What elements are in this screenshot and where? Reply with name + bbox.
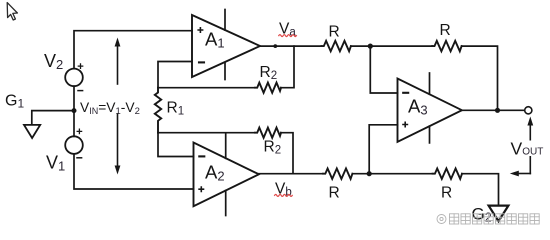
wire: A2 output to Vb / R bottom (259, 173, 323, 175)
wire: V2 top to A1 plus input (74, 31, 192, 69)
resistor R (bottom right, to ground) (433, 169, 462, 179)
annotation arrow up (VIN) (117, 46, 119, 85)
svg-text:V2: V2 (44, 51, 63, 72)
voltage source V2 (65, 69, 83, 87)
red squiggle under Vb (275, 194, 293, 196)
output terminal circle (525, 107, 532, 114)
svg-text:A3: A3 (408, 95, 428, 117)
V2 plus sign (78, 64, 82, 68)
A3 minus sign (403, 92, 408, 94)
svg-text:G1: G1 (5, 93, 24, 111)
svg-text:V1: V1 (46, 153, 65, 174)
svg-text:R: R (440, 22, 451, 39)
annotation VOUT arrow up (529, 124, 531, 174)
op-amp A1 (192, 15, 260, 77)
resistor R2 (top) (255, 83, 281, 93)
cursor pointer icon (7, 3, 17, 20)
A1 power stub top (224, 10, 226, 31)
resistor R1 (vertical) (155, 88, 161, 133)
ground G2 symbol (489, 206, 509, 222)
svg-text:A2: A2 (205, 161, 225, 183)
wire: node Y up to A3 plus input (369, 125, 397, 174)
node Y junction dot (367, 171, 372, 176)
red squiggle under Va (279, 35, 297, 37)
V2 minus sign (78, 90, 83, 92)
resistor R (top left) (322, 41, 351, 51)
svg-text:A1: A1 (205, 29, 225, 51)
V1 plus sign (77, 129, 81, 133)
A3 power stub bottom (429, 126, 431, 143)
svg-text:R: R (441, 185, 452, 202)
wire: V2 bottom through node to V1 top (73, 86, 75, 136)
resistor R (bottom left) (323, 169, 352, 179)
op-amp A2 (194, 143, 259, 207)
node X junction dot (368, 44, 373, 49)
wire: feedback R right corner down to output junction (462, 46, 498, 110)
A3 power stub top (429, 73, 431, 94)
wire: V1 bottom to A2 plus input (74, 154, 194, 189)
wire: R to node Y (352, 173, 432, 175)
wire + resistor R2 bottom row: node to Vb (158, 132, 255, 134)
wire: A1 output to node X (260, 45, 322, 47)
V1 minus sign (77, 157, 82, 159)
ground G1 symbol (24, 125, 40, 138)
wire: R2 top right side up to Va node (281, 46, 294, 88)
node: middle junction dot (72, 108, 77, 113)
wire + resistor R2 top row: node to Va (158, 87, 255, 89)
A1 power stub bottom (224, 63, 226, 80)
wire: R to node X (351, 45, 432, 47)
svg-text:R: R (329, 185, 340, 202)
svg-text:R1: R1 (167, 100, 185, 118)
A2 power stub top (225, 134, 227, 158)
wire: node to G1 ground (32, 111, 74, 125)
wire: R1 bottom node down to A2 minus input (158, 133, 194, 157)
resistor R (top right, feedback) (432, 41, 461, 51)
wire: node X down to A3 minus input (370, 46, 397, 93)
resistor R2 (bottom) (255, 128, 281, 138)
A3 plus sign (403, 122, 407, 126)
A2 plus sign (199, 187, 203, 191)
wire: R2 bottom right side down to Vb node (281, 133, 293, 174)
wire: R right corner down to G2 ground (462, 174, 499, 206)
A2 minus sign (199, 155, 204, 157)
annotation VOUT arrow left (519, 173, 531, 175)
node: small dot on Va wire (273, 44, 277, 48)
label VOUT (509, 141, 545, 157)
annotation arrow down (VIN) (117, 114, 119, 167)
wire: A1 minus input loop down to R1 top node (158, 62, 192, 88)
A1 minus sign (199, 61, 204, 63)
wire: A3 output to terminal (462, 109, 525, 111)
voltage source V1 (65, 136, 83, 154)
svg-text:VIN=V1-V2: VIN=V1-V2 (80, 100, 140, 117)
svg-text:R: R (329, 24, 340, 41)
A1 plus sign (198, 28, 202, 32)
watermark @稀土掘金技术社区 (437, 214, 539, 224)
svg-text:R2: R2 (260, 64, 278, 82)
A2 power stub bottom (225, 191, 227, 216)
node: output junction dot (495, 108, 500, 113)
svg-text:R2: R2 (264, 139, 282, 157)
op-amp A3 (398, 79, 462, 142)
